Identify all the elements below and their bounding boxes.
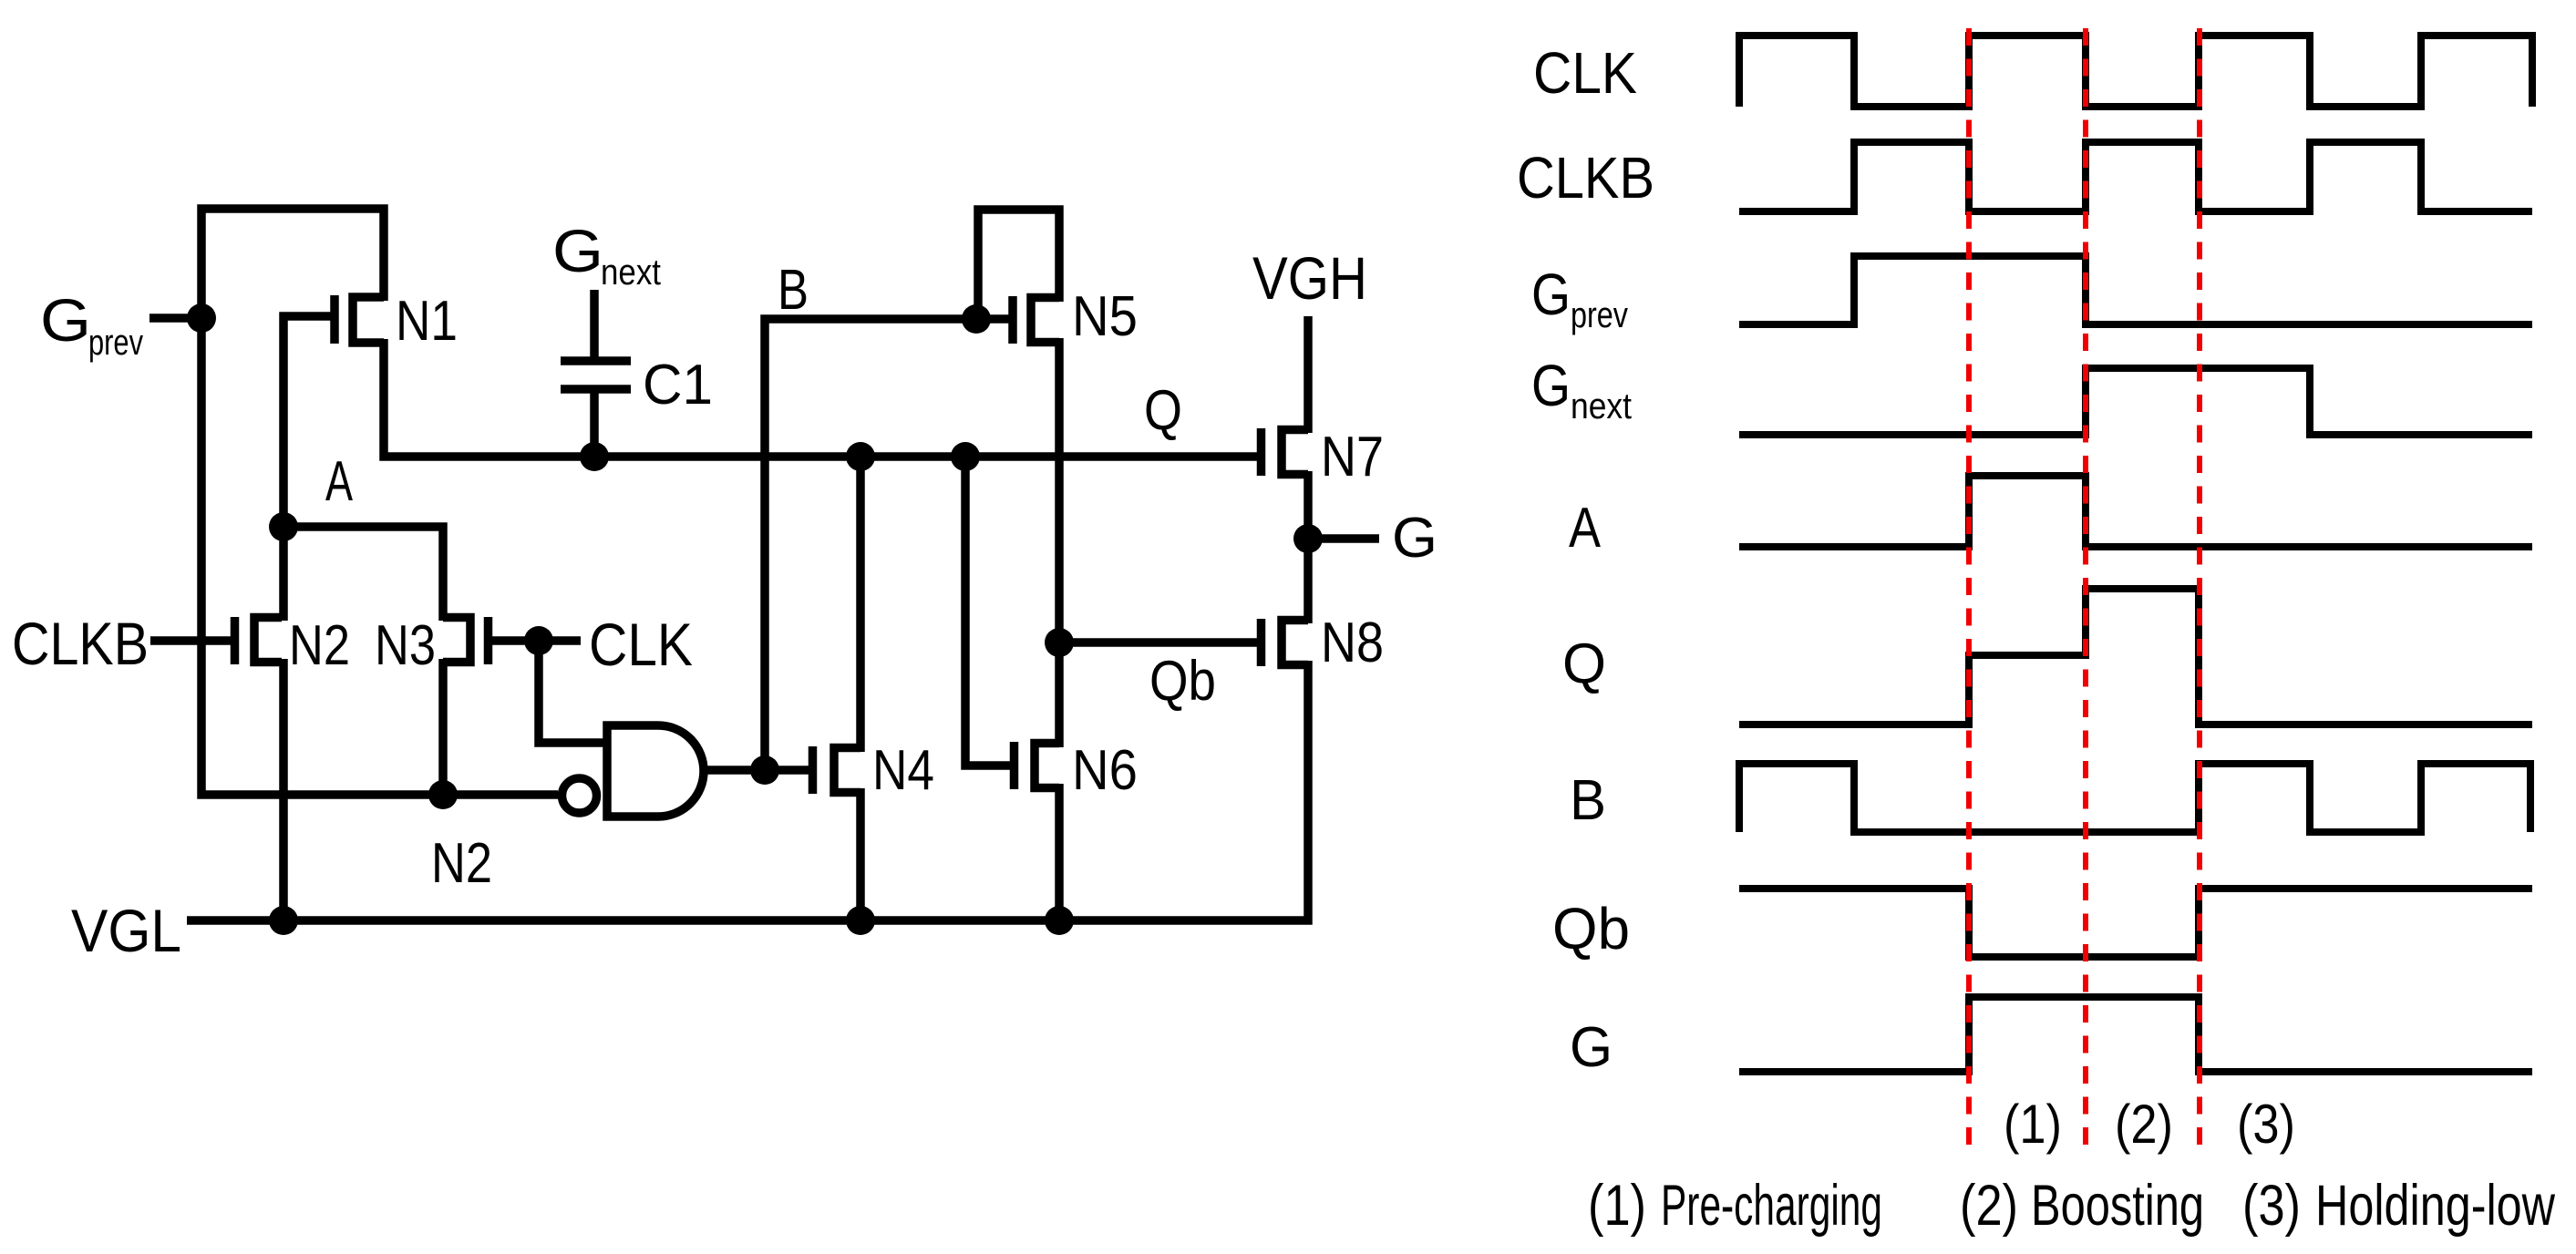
svg-text:G: G <box>1392 507 1437 570</box>
svg-text:(1): (1) <box>1588 1174 1646 1238</box>
svg-text:B: B <box>778 259 809 322</box>
svg-text:B: B <box>1570 769 1606 832</box>
svg-text:Q: Q <box>1144 379 1182 442</box>
svg-text:CLK: CLK <box>589 611 693 678</box>
svg-text:VGH: VGH <box>1252 244 1367 312</box>
svg-text:N3: N3 <box>375 614 436 677</box>
svg-text:(2): (2) <box>2115 1094 2173 1155</box>
svg-text:N4: N4 <box>872 739 934 802</box>
svg-text:G: G <box>1570 1016 1613 1079</box>
svg-text:G: G <box>1531 262 1571 327</box>
svg-text:(3): (3) <box>2237 1094 2295 1155</box>
svg-text:N6: N6 <box>1072 739 1138 802</box>
svg-text:CLKB: CLKB <box>12 610 149 677</box>
svg-text:Pre-charging: Pre-charging <box>1661 1174 1882 1238</box>
svg-text:G: G <box>552 217 603 284</box>
svg-text:VGL: VGL <box>71 897 181 964</box>
svg-text:N5: N5 <box>1072 285 1138 348</box>
svg-text:N2: N2 <box>289 614 350 677</box>
svg-text:Q: Q <box>1562 632 1606 695</box>
svg-text:Qb: Qb <box>1552 896 1630 961</box>
svg-text:N1: N1 <box>396 290 458 353</box>
svg-text:C1: C1 <box>643 354 713 416</box>
svg-text:N7: N7 <box>1321 426 1384 488</box>
svg-text:next: next <box>601 252 661 293</box>
svg-text:N2: N2 <box>431 832 492 895</box>
svg-text:prev: prev <box>1571 295 1628 335</box>
svg-text:Holding-low: Holding-low <box>2315 1174 2555 1238</box>
svg-text:G: G <box>40 286 91 354</box>
svg-text:prev: prev <box>88 323 143 363</box>
svg-text:Qb: Qb <box>1149 650 1216 713</box>
svg-text:N8: N8 <box>1321 612 1384 674</box>
svg-text:A: A <box>325 450 353 513</box>
svg-text:CLK: CLK <box>1533 40 1637 106</box>
svg-text:G: G <box>1531 353 1571 418</box>
svg-text:A: A <box>1569 497 1602 560</box>
svg-text:next: next <box>1571 386 1632 427</box>
svg-text:(3): (3) <box>2242 1174 2301 1238</box>
svg-text:(2): (2) <box>1960 1174 2018 1238</box>
svg-text:Boosting: Boosting <box>2031 1174 2204 1238</box>
svg-text:(1): (1) <box>2004 1094 2062 1155</box>
svg-text:CLKB: CLKB <box>1517 145 1654 211</box>
